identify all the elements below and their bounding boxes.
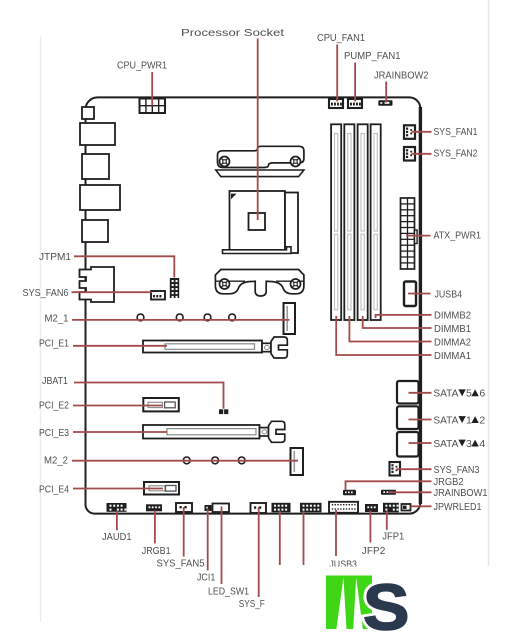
bottom connector JFP1 — [383, 503, 399, 513]
screw top-right — [291, 157, 301, 167]
leader header A — [279, 511, 281, 565]
dimm slot DIMMA2 — [344, 124, 354, 320]
svg-text:SYS_FAN6: SYS_FAN6 — [23, 287, 69, 299]
bracket bottom (heatsink retention) — [215, 270, 304, 297]
m2_1 standoff holes — [137, 314, 235, 321]
leader SYS_FAN6 — [72, 291, 152, 293]
leader JRGB2 — [346, 481, 432, 490]
svg-text:LED_SW1: LED_SW1 — [208, 585, 249, 597]
connector JRAINBOW2 — [378, 100, 392, 106]
svg-text:SATA: SATA — [433, 438, 458, 450]
cpu socket bottom bar — [223, 247, 292, 254]
leader ATX_PWR1 — [406, 235, 431, 237]
svg-text:PCI_E4: PCI_E4 — [39, 484, 69, 496]
connector ATX_PWR1 (2x12 grid) — [401, 198, 418, 269]
bottom connector SYS_FAN5 — [176, 503, 192, 512]
svg-text:PCI_E3: PCI_E3 — [39, 427, 69, 439]
svg-text:JRAINBOW2: JRAINBOW2 — [374, 69, 429, 81]
leader SATA34 — [409, 442, 432, 444]
bottom connector JCI1 — [205, 505, 212, 511]
leader JAUD1 — [116, 511, 118, 530]
svg-text:DIMMA1: DIMMA1 — [434, 350, 471, 362]
connector SYS_FAN6 — [151, 291, 165, 300]
svg-text:M2_2: M2_2 — [44, 454, 68, 466]
connector JTPM1 (2x5 header) — [170, 278, 179, 298]
svg-text:PUMP_FAN1: PUMP_FAN1 — [344, 50, 401, 62]
svg-text:JBAT1: JBAT1 — [42, 375, 68, 387]
leader JUSB4 — [408, 293, 431, 295]
io port small square — [82, 107, 94, 119]
m2_2 standoff holes — [183, 457, 245, 464]
leader PCI_E4 — [73, 488, 163, 490]
leader JBAT1 — [74, 383, 224, 409]
faint page rule right — [488, 0, 490, 566]
cpu socket right flap — [285, 193, 298, 254]
bottom connector SYS_FAN4 — [251, 503, 267, 513]
label SATA56 — [433, 388, 485, 400]
pcie slot PCI_E3 — [143, 421, 285, 442]
leader JUSB3 — [335, 510, 337, 556]
svg-text:JAUD1: JAUD1 — [102, 531, 132, 543]
leader DIMMA1 — [336, 316, 431, 355]
screw top-left — [220, 157, 230, 167]
svg-text:SYS_FAN2: SYS_FAN2 — [434, 147, 478, 159]
bottom connector header B — [300, 503, 322, 513]
leader header B — [303, 511, 305, 565]
leader SYS_FAN4 — [258, 507, 260, 597]
leader M2_2 — [72, 460, 298, 462]
bottom connector JUSB3 — [329, 502, 358, 513]
svg-text:SATA: SATA — [433, 388, 458, 400]
svg-text:DIMMA2: DIMMA2 — [434, 336, 471, 348]
svg-text:JFP1: JFP1 — [382, 531, 404, 543]
leader LED_SW1 — [221, 507, 223, 585]
leader JRAINBOW2 — [385, 82, 387, 103]
svg-text:SYS_FAN5: SYS_FAN5 — [157, 558, 205, 570]
connector CPU_PWR1 (2x4 grid) — [140, 99, 166, 114]
leader PCI_E1 — [73, 345, 167, 347]
svg-text:Processor Socket: Processor Socket — [181, 27, 284, 39]
dimm slot DIMMB2 — [371, 124, 381, 320]
svg-text:JFP2: JFP2 — [362, 545, 386, 557]
svg-text:DIMMB2: DIMMB2 — [434, 310, 471, 322]
io port rect 5 — [82, 220, 108, 242]
connector SYS_FAN3 — [390, 462, 401, 476]
bottom connector LED_SW1 — [213, 504, 230, 513]
leader PCI_E3 — [73, 431, 167, 433]
svg-text:JTPM1: JTPM1 — [39, 251, 71, 263]
leader SYS_FAN5 — [183, 507, 185, 557]
logo M — [326, 576, 372, 630]
svg-text:6: 6 — [479, 388, 485, 400]
leader JFP1 — [386, 511, 388, 530]
svg-text:CPU_FAN1: CPU_FAN1 — [317, 32, 365, 44]
io port rect 4 — [80, 185, 120, 210]
svg-text:ATX_PWR1: ATX_PWR1 — [434, 230, 482, 242]
faint page rule left — [40, 36, 42, 622]
leader DIMMB1 — [363, 316, 432, 328]
connector JRGB2 — [343, 490, 356, 495]
leader JPWRLED1 — [411, 505, 432, 507]
leader CPU_PWR1 — [151, 72, 153, 106]
leader PCI_E2 — [73, 405, 162, 407]
leader CPU_FAN1 — [336, 45, 338, 102]
connector CPU_FAN1 — [329, 99, 343, 108]
pcie latch PCI_E1 — [262, 343, 271, 351]
bottom connector JAUD1 — [107, 503, 127, 512]
connector PUMP_FAN1 — [348, 99, 362, 108]
io audio block — [80, 267, 115, 302]
board outline — [86, 97, 421, 513]
bracket top (heatsink retention) — [216, 146, 304, 176]
connector SATA 5/6 — [397, 381, 419, 404]
svg-text:SYS_FAN3: SYS_FAN3 — [434, 464, 480, 476]
connector SATA 3/4 — [397, 432, 419, 457]
label SATA12 — [433, 414, 485, 426]
leader JFP2 — [369, 511, 371, 543]
watermark white box — [318, 567, 448, 587]
connector SATA 1/2 — [397, 406, 419, 429]
cpu socket pin1 triangle — [231, 194, 237, 200]
connector JRAINBOW1 — [381, 490, 396, 495]
svg-text:4: 4 — [479, 438, 485, 450]
screw bottom-left — [220, 279, 230, 289]
leader JTPM1 — [74, 256, 174, 277]
svg-text:JPWRLED1: JPWRLED1 — [434, 501, 482, 513]
connector JBAT1 — [219, 409, 228, 414]
leader DIMMA2 — [349, 316, 431, 342]
connector SYS_FAN1 — [404, 125, 415, 139]
connector M2_2 slot — [291, 448, 304, 475]
bottom connector JFP2 — [365, 504, 378, 512]
pcie slot PCI_E4 (x1) — [144, 482, 179, 495]
svg-text:5: 5 — [466, 388, 472, 400]
pcie slot PCI_E2 (x1) — [143, 398, 179, 411]
svg-text:PCI_E2: PCI_E2 — [39, 399, 69, 411]
svg-text:JCI1: JCI1 — [197, 571, 216, 583]
label SATA34 — [433, 438, 485, 450]
svg-text:1: 1 — [466, 414, 472, 426]
leader JCI1 — [207, 509, 209, 570]
leader SYS_FAN2 — [412, 153, 432, 155]
svg-text:DIMMB1: DIMMB1 — [434, 323, 471, 335]
svg-text:2: 2 — [479, 414, 485, 426]
svg-text:S: S — [363, 571, 409, 640]
board right edge (thick) — [419, 107, 422, 504]
cpu socket outer — [230, 191, 286, 250]
screw bottom-right — [291, 279, 301, 289]
svg-text:JRAINBOW1: JRAINBOW1 — [434, 487, 488, 499]
connector M2_1 slot — [284, 303, 296, 334]
io port rect 2 — [80, 123, 115, 145]
dimm slot DIMMA1 — [331, 124, 341, 320]
svg-text:SYS_F: SYS_F — [239, 598, 265, 610]
connector SYS_FAN2 — [404, 147, 415, 161]
leader PUMP_FAN1 — [354, 63, 356, 102]
svg-text:PCI_E1: PCI_E1 — [39, 337, 69, 349]
leader SATA56 — [409, 392, 432, 394]
bottom connector header A — [272, 503, 291, 513]
pcie slot PCI_E1 — [143, 337, 287, 358]
svg-text:JUSB4: JUSB4 — [435, 288, 463, 300]
leader Processor Socket — [257, 39, 259, 221]
svg-text:SATA: SATA — [433, 414, 458, 426]
svg-text:JRGB1: JRGB1 — [142, 545, 171, 557]
leader SYS_FAN1 — [412, 131, 432, 133]
bottom connector JPWRLED1 — [402, 504, 411, 511]
svg-text:M2_1: M2_1 — [45, 312, 69, 324]
io port rect 3 — [82, 154, 109, 179]
cpu socket center square — [249, 213, 266, 230]
bottom connector JRGB1 — [146, 504, 162, 511]
dimm slot DIMMB1 — [358, 124, 368, 320]
svg-text:CPU_PWR1: CPU_PWR1 — [117, 59, 167, 71]
leader JRGB1 — [154, 511, 156, 544]
svg-text:SYS_FAN1: SYS_FAN1 — [434, 126, 478, 138]
leader SATA12 — [409, 419, 432, 421]
connector JUSB4 — [404, 282, 416, 307]
leader JRAINBOW1 — [389, 491, 432, 493]
leader M2_1 — [72, 319, 290, 321]
leader SYS_FAN3 — [397, 468, 432, 470]
leader DIMMB2 — [376, 315, 432, 318]
svg-text:3: 3 — [466, 438, 472, 450]
pcie latch PCI_E3 — [260, 428, 269, 436]
